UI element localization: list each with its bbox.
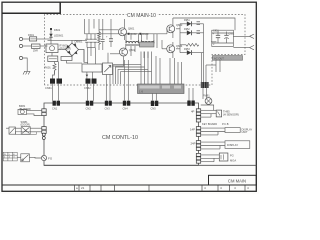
bottom strip cell dividers [75, 185, 246, 191]
connector CN2 on CONTL top edge [86, 101, 94, 111]
relay RY601 [46, 44, 71, 53]
pin arrow P2 out [233, 45, 254, 49]
wire CN65 drops [202, 53, 221, 82]
bottom revision strip line [2, 184, 256, 186]
capacitor C603 [89, 39, 93, 42]
rail AC top [48, 39, 88, 41]
wire P21 to TH95 [201, 110, 217, 117]
connector CN65 gray [213, 56, 243, 61]
diode D604 [180, 21, 204, 26]
svg-text:CM MAIN-10: CM MAIN-10 [127, 13, 156, 19]
hybrid IC601 [140, 42, 155, 47]
rail top feed [85, 19, 125, 34]
connector CN64 hatched [201, 82, 209, 88]
junction node D602 anode [128, 33, 130, 35]
svg-text:KEY BOARD: KEY BOARD [202, 122, 217, 126]
wire net N3 down to CN3 [106, 75, 110, 101]
relay coil RY602 box [82, 64, 102, 72]
capacitor C608 [197, 31, 201, 34]
wire secondary drops to CN63 [156, 56, 182, 84]
fan motor FM91 [203, 94, 212, 105]
rail B+ [85, 33, 168, 35]
capacitor C610 [224, 32, 228, 44]
connector CN61 board-bottom pair left [45, 79, 62, 90]
svg-text:D952: D952 [184, 28, 190, 31]
svg-text:AC OUT: AC OUT [214, 56, 224, 60]
svg-text:FG: FG [48, 157, 53, 161]
wire Q602 leads [110, 44, 126, 66]
thermal fuse TF601 [61, 57, 72, 61]
junction node at rail [50, 28, 52, 30]
svg-text:CN1: CN1 [52, 107, 58, 111]
svg-text:D953: D953 [184, 48, 190, 51]
svg-text:FG: FG [230, 153, 234, 157]
ground FG circle bottom-left of board [41, 155, 46, 160]
svg-text:14P: 14P [190, 128, 195, 132]
connector P12 stack on CONTL left edge [42, 127, 46, 134]
wire coil box to CN62 [87, 72, 93, 79]
wire earth lead [23, 58, 28, 71]
svg-text:CN4: CN4 [123, 107, 129, 111]
relay coil K601 [48, 56, 58, 62]
junction node D603 anode [139, 33, 141, 35]
wire switches to P12 [6, 128, 42, 132]
bottom strip tiny marks [76, 186, 249, 190]
wire P24 to FG-MGA [201, 155, 220, 162]
svg-text:1 6: 1 6 [139, 90, 143, 94]
capacitor C602 [85, 39, 89, 42]
wire Q601 leads [99, 25, 125, 41]
wire bridge bottom [67, 55, 83, 64]
connector P21 stack on CONTL right edge [196, 109, 200, 122]
diode D606 [180, 50, 204, 55]
board box CM CONTL-10 [44, 103, 256, 165]
label CM MAIN-10 [127, 11, 158, 17]
wire relay to coil [51, 53, 53, 57]
svg-text:R601: R601 [45, 66, 52, 70]
capacitor C605 [101, 19, 105, 50]
wire resistor to CN61 [53, 62, 59, 79]
transformer T601 secondary [142, 40, 154, 43]
wire bridge right [79, 50, 85, 63]
thermistor TH95 [201, 105, 239, 117]
svg-text:D603: D603 [142, 32, 149, 36]
connector CN6 on CONTL top edge [187, 101, 194, 106]
svg-text:CN61: CN61 [45, 86, 52, 90]
wire relay to bridge [58, 49, 66, 51]
relay contact RY602 switch [103, 63, 113, 75]
wire bus nested L runs [113, 52, 152, 85]
wire fuse to board [37, 38, 47, 40]
svg-text:UNIT: UNIT [242, 130, 248, 134]
svg-text:4P: 4P [191, 110, 195, 114]
svg-text:Q601: Q601 [128, 27, 135, 31]
wire CN63 to CN5 [152, 94, 156, 101]
fuse F601 [28, 33, 37, 41]
page outer border frame [2, 2, 256, 191]
svg-text:CM CONTL-10: CM CONTL-10 [102, 135, 138, 141]
diode D605 [180, 30, 204, 35]
transistor Q604 [167, 44, 183, 53]
varistor ZNR601 [32, 44, 41, 48]
capacitor C604 [93, 39, 97, 42]
svg-text:C951: C951 [213, 30, 219, 33]
svg-text:LED601: LED601 [54, 34, 64, 38]
connector P22 stack on CONTL right edge [196, 127, 200, 137]
flat cable FFC2 display unit [225, 141, 250, 149]
wire AC-N to ZNR [23, 45, 32, 47]
svg-text:D951: D951 [184, 19, 190, 22]
transistor Q601 [119, 27, 135, 36]
bridge rectifier DB601 [66, 43, 79, 56]
connector P24 stack on CONTL right edge [196, 153, 200, 163]
ground chassis symbol [23, 72, 30, 75]
switch SW82 [9, 127, 15, 134]
wire P22 to FFC1 [201, 128, 225, 135]
rail top right [173, 18, 235, 30]
terminal AC-N [19, 44, 22, 47]
wire bridge to coil box [84, 48, 108, 65]
diode D601 [49, 28, 64, 38]
wire bridge top to rail [71, 40, 73, 43]
diode D607 polarity mark [86, 75, 89, 77]
wire filter internals [212, 33, 234, 43]
title block CM MAIN [209, 175, 257, 185]
svg-text:ZNR: ZNR [33, 50, 38, 53]
resistor R603 horizontal [180, 43, 199, 46]
label row membrane key [202, 122, 229, 126]
wire CN62 to CN2 [88, 84, 94, 101]
output filter box [212, 30, 234, 46]
connector CN5 on CONTL top edge [151, 101, 159, 111]
wire CN61 to CN1 [53, 84, 59, 101]
wire diode bus [176, 24, 204, 60]
wire AC-L to fuse [23, 38, 30, 40]
capacitor C607 [197, 22, 201, 25]
resistor R601 [45, 62, 57, 75]
svg-text:(DOOR): (DOOR) [21, 122, 31, 126]
connector CN4 on CONTL top edge [123, 101, 131, 111]
svg-text:D602: D602 [131, 32, 138, 36]
terminal AC-L [19, 37, 22, 40]
wire ZNR to board [40, 45, 48, 47]
table noise-filter legend [3, 152, 17, 161]
connector CN1 on CONTL top edge [52, 101, 60, 111]
svg-text:CN5: CN5 [151, 107, 157, 111]
wire CN64 to FM91 [203, 88, 207, 99]
resistor R602 vertical [98, 29, 101, 51]
title strip notch top-left [2, 2, 60, 13]
svg-text:F601: F601 [28, 33, 34, 37]
capacitor C606 electrolytic [106, 19, 113, 47]
wire net N4 down to CN4 [124, 60, 128, 101]
wire CN64 to CN6 and motor [189, 88, 193, 101]
connector CN62 board-bottom pair mid [84, 79, 97, 90]
switch SW83 to FG [21, 154, 30, 162]
switch SW81 door [21, 120, 31, 134]
ground symbol filter [211, 42, 216, 44]
connector P11 stack on CONTL left edge [42, 109, 46, 116]
svg-text:D601: D601 [54, 28, 61, 32]
svg-text:CN2: CN2 [86, 107, 92, 111]
wire buzzer to P11 [27, 110, 42, 115]
label plate door switch row [15, 132, 36, 135]
transformer T601 primary [126, 40, 138, 43]
wire P23 to FFC2 [201, 142, 225, 149]
connector CN63 long gray header [138, 84, 185, 94]
dashed boundary CM MAIN-10 board [45, 15, 246, 86]
svg-text:24P: 24P [191, 142, 196, 146]
transistor Q603 [167, 23, 183, 33]
buzzer BZ81 [18, 104, 31, 114]
transformer T601 core [126, 44, 154, 45]
pin arrow P1 out [233, 34, 254, 38]
svg-text:(H SENSOR): (H SENSOR) [223, 113, 239, 117]
terminal pair on CONTL left edge [42, 133, 45, 139]
terminal board FG-MGA [219, 153, 236, 162]
terminal EARTH [19, 56, 22, 59]
node L rail [46, 38, 51, 40]
svg-text:DISPLAY: DISPLAY [227, 143, 238, 147]
legend table cell marks [4, 154, 15, 159]
wire rail to relay top [50, 29, 52, 44]
svg-text:21: 21 [81, 186, 85, 190]
wire SW83 to FG circle [17, 156, 41, 159]
transistor Q602 [120, 48, 136, 56]
svg-text:CM MAIN: CM MAIN [228, 179, 246, 184]
wire smoothing verticals [87, 34, 95, 56]
flat cable FFC1 to key board [225, 127, 253, 134]
wire T601 nets [126, 34, 157, 58]
connector CN3 on CONTL top edge [105, 101, 112, 111]
svg-text:MGA: MGA [230, 158, 236, 162]
connector P23 stack on CONTL right edge [196, 141, 200, 151]
wire Q603-Q604 nets [162, 18, 173, 58]
svg-text:CN3: CN3 [105, 107, 111, 111]
svg-text:Q602: Q602 [129, 48, 136, 52]
capacitor C609 electrolytic [213, 32, 221, 44]
svg-text:P.C.B: P.C.B [222, 122, 229, 126]
